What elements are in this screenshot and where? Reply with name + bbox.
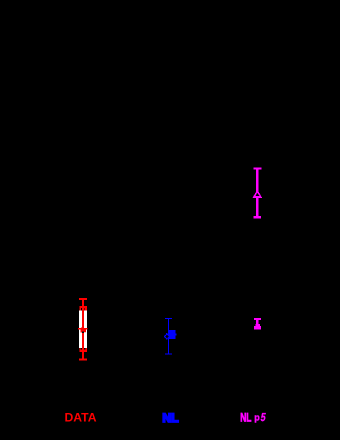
NL point: blue error bar vertical line [168, 318, 169, 354]
NL_p5 filled triangle marker (stepped raster) top step [257, 322, 259, 325]
DATA bottom outer cap [79, 359, 87, 361]
DATA red line over white box lower [82, 333, 84, 348]
NL_p5 upper bottom cap [254, 216, 262, 218]
DATA red line over white box upper [82, 311, 84, 332]
NL open diamond marker outer [164, 333, 170, 340]
DATA point: red error bar vertical line upper segment [82, 298, 84, 332]
DATA star marker body [80, 329, 86, 332]
DATA star marker top point [81, 326, 84, 328]
NL top cap [165, 318, 172, 319]
DATA star marker black notch [82, 332, 84, 334]
NL_p5 lower point: magenta short error bar line [256, 319, 258, 324]
DATA box right edge bottom [86, 348, 87, 350]
svg-text:DATA: DATA [64, 410, 96, 424]
NL_p5 upper top cap [254, 168, 262, 170]
DATA top inner cap bar [79, 306, 87, 308]
svg-text:NL: NL [162, 411, 179, 425]
NL bottom cap [165, 353, 172, 354]
NL_p5 upper point: magenta error bar vertical line [256, 168, 258, 218]
NL open diamond bottom vertex blob [166, 338, 168, 339]
svg-text:NL: NL [240, 412, 251, 425]
NL open diamond marker black hole [165, 335, 168, 339]
DATA star marker right leg [84, 332, 86, 333]
DATA systematic white box [79, 311, 87, 348]
label NL_p5 [240, 412, 266, 425]
NL_p5 open triangle black hole [256, 193, 260, 196]
DATA box left edge top [79, 308, 81, 311]
DATA box left edge bottom [79, 348, 80, 350]
NL_p5 filled triangle bottom step [254, 326, 261, 329]
NL_p5 filled triangle middle step [255, 324, 259, 326]
NL open diamond top vertex blob [166, 333, 168, 334]
DATA bottom inner cap bar [79, 350, 87, 352]
DATA red error bar vertical line lower segment [82, 333, 84, 360]
DATA star marker arms [78, 328, 88, 330]
NL diamond nub right [175, 334, 176, 336]
svg-text:p: p [254, 413, 260, 423]
DATA top outer cap [79, 298, 87, 300]
NL filled square marker [169, 330, 175, 339]
NL_p5 lower top cap [254, 318, 261, 320]
DATA box right edge top [84, 308, 87, 311]
NL open diamond left vertex blob [164, 336, 165, 338]
NL_p5 open triangle marker [252, 190, 262, 198]
DATA star marker left leg [80, 332, 82, 333]
